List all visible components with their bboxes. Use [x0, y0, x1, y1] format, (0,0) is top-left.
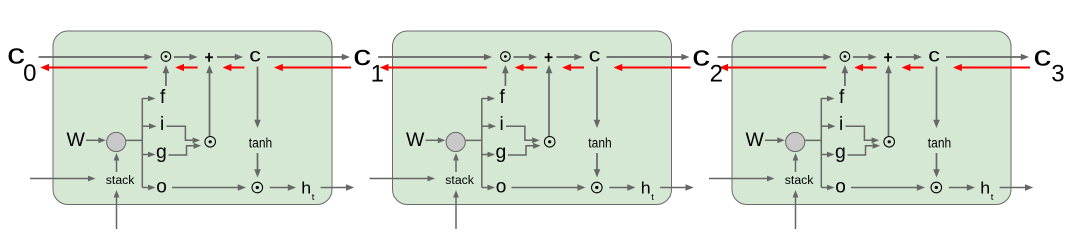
svg-text:c: c — [692, 40, 710, 72]
svg-text:2: 2 — [710, 60, 723, 87]
svg-text:1: 1 — [371, 61, 384, 88]
svg-text:c: c — [353, 40, 371, 72]
svg-text:3: 3 — [1051, 61, 1064, 88]
svg-text:0: 0 — [23, 60, 36, 87]
svg-text:c: c — [1033, 40, 1051, 72]
